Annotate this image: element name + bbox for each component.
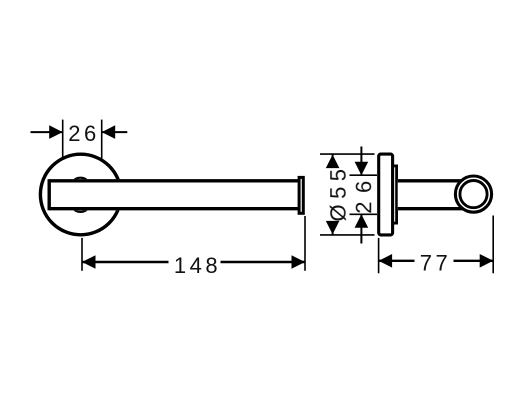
bar top edge <box>49 179 299 182</box>
svg-text:26: 26 <box>68 121 99 146</box>
dim Ø55: top extension line <box>320 153 375 155</box>
dim 26 top: right arrow <box>102 125 116 139</box>
stem ellipse bottom bump <box>74 205 87 212</box>
dim 26 top: left extension line <box>62 120 64 158</box>
dim 26 side: bottom arrow <box>355 214 369 228</box>
svg-text:26: 26 <box>351 172 376 213</box>
dim 26 top: left tail line <box>31 131 63 133</box>
bar body fill (front view) <box>48 179 299 210</box>
dim 26 top: right tail line <box>102 131 128 133</box>
side view: collar behind plate <box>386 166 397 223</box>
dim 26 side: upper line <box>360 147 362 176</box>
dim 77: left extension line <box>378 238 380 273</box>
dim 77: line right segment <box>454 260 494 262</box>
dim Ø55: bottom extension line <box>320 234 375 236</box>
bar left end edge <box>48 179 51 210</box>
side view: stem fill <box>398 179 468 210</box>
dim 26 side: top arrow <box>355 162 369 176</box>
dim 26 side: lower line <box>360 214 362 243</box>
bar end cap <box>299 177 303 213</box>
dim Ø55: line top segment <box>332 154 334 168</box>
dim 148: line left segment <box>82 261 169 263</box>
dim 77: left arrow <box>379 254 393 268</box>
dim 77: right extension line <box>492 216 494 274</box>
dim Ø55: bottom arrow <box>326 221 340 235</box>
dim 26 top: left arrow <box>49 125 63 139</box>
dim Ø55: top arrow <box>326 155 340 169</box>
side view: wall plate <box>379 154 393 235</box>
dim 26 side: bottom extension line <box>350 213 378 215</box>
bar bottom edge <box>49 207 299 210</box>
side view: end cap outer ring <box>455 176 491 212</box>
dim 26 side: top extension line <box>350 174 378 176</box>
dim 77: line left segment <box>379 260 415 262</box>
rosette circle (front view) <box>40 154 121 235</box>
dim 148: right arrow <box>292 255 306 269</box>
dim 148: left extension line <box>81 238 83 271</box>
dim Ø55: line bottom segment <box>332 221 334 235</box>
dim 26 top: right extension line <box>101 120 103 160</box>
stem ellipse top bump <box>74 178 87 185</box>
side view: stem bottom edge <box>398 207 467 210</box>
dim 148: right extension line <box>304 216 306 271</box>
dim 77: right arrow <box>480 254 494 268</box>
dim 148: left arrow <box>82 255 96 269</box>
svg-text:148: 148 <box>174 253 221 278</box>
dim 148: line right segment <box>221 261 306 263</box>
side view: stem top edge <box>398 179 467 182</box>
svg-text:Ø55: Ø55 <box>326 163 351 221</box>
side view: bar tube inner ring <box>460 181 487 208</box>
svg-text:77: 77 <box>420 250 451 275</box>
